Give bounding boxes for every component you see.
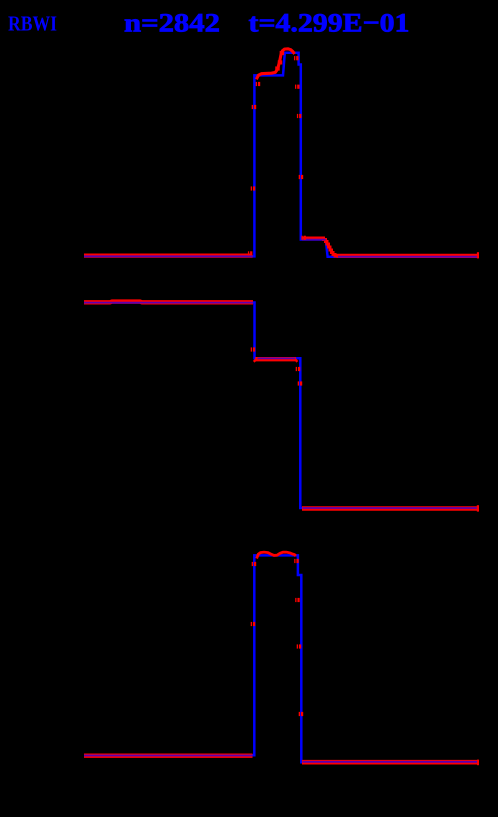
red markers panel 1 bbox=[248, 51, 479, 259]
blue curve panel 2 (full path) bbox=[84, 303, 476, 509]
svg-text:RBWI: RBWI bbox=[8, 12, 57, 36]
svg-text:n=2842: n=2842 bbox=[124, 7, 220, 37]
blue core lines panel 3 flats bbox=[84, 756, 477, 762]
red thick flats panel 2 bbox=[84, 302, 478, 509]
svg-text:t=4.299E−01: t=4.299E−01 bbox=[249, 7, 410, 37]
red wiggle plateau 1 and overshoot panel 1 bbox=[256, 49, 294, 80]
red markers panel 3 bbox=[251, 559, 479, 765]
red wiggle on top plateau panel 3 bbox=[257, 552, 296, 558]
red thick flats panel 3 bbox=[84, 756, 478, 763]
red markers panel 2 bbox=[251, 347, 479, 511]
red thick flats panel 1 bbox=[84, 238, 478, 256]
blue curve panel 1 (full path) bbox=[84, 53, 477, 257]
blue core lines panel 2 flats bbox=[84, 303, 477, 508]
blue curve panel 3 (full path) bbox=[84, 555, 476, 762]
blue core lines panel 1 flats bbox=[84, 240, 477, 257]
